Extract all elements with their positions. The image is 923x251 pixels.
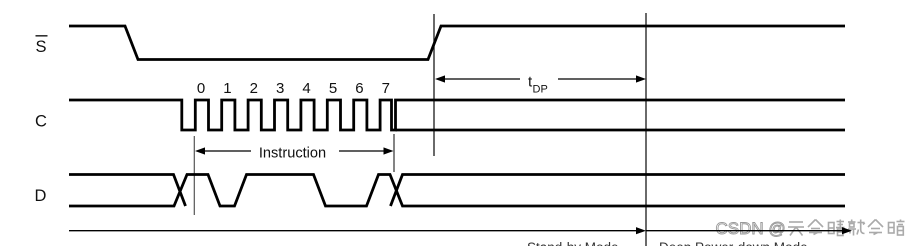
svg-text:Deep Power-down Mode: Deep Power-down Mode (659, 240, 808, 246)
svg-text:1: 1 (223, 80, 231, 97)
svg-text:4: 4 (302, 80, 310, 97)
svg-text:S: S (36, 38, 47, 56)
svg-text:D: D (35, 187, 47, 205)
svg-text:DP: DP (533, 84, 548, 96)
svg-text:7: 7 (382, 80, 390, 97)
svg-text:Instruction: Instruction (259, 146, 326, 162)
svg-text:C: C (35, 112, 47, 130)
svg-text:0: 0 (197, 80, 205, 97)
svg-text:5: 5 (329, 80, 337, 97)
svg-text:CSDN @: CSDN @ (716, 219, 786, 238)
svg-text:3: 3 (276, 80, 284, 97)
svg-text:Stand-by Mode: Stand-by Mode (527, 240, 619, 246)
svg-text:2: 2 (250, 80, 258, 97)
svg-text:6: 6 (355, 80, 363, 97)
